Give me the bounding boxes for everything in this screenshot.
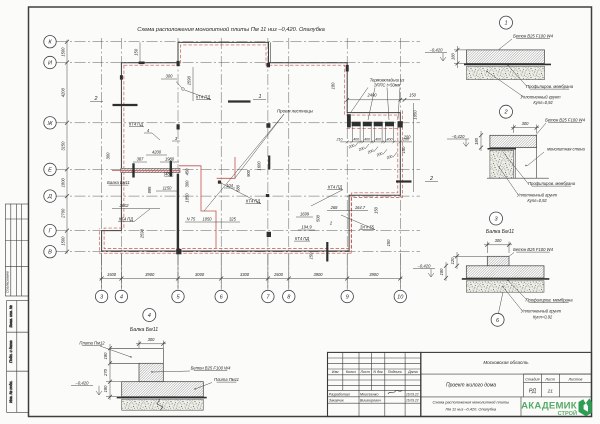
svg-text:3900: 3900 bbox=[145, 272, 155, 277]
detail 1 soil stipple bbox=[467, 66, 545, 79]
wall pier blocks bbox=[177, 61, 180, 66]
svg-text:3900: 3900 bbox=[369, 272, 379, 277]
building slab outline bbox=[102, 42, 401, 251]
svg-text:Дата: Дата bbox=[407, 370, 417, 374]
svg-text:270: 270 bbox=[103, 368, 108, 377]
svg-text:3300: 3300 bbox=[240, 272, 250, 277]
svg-text:164.7: 164.7 bbox=[355, 205, 366, 210]
svg-text:1500: 1500 bbox=[61, 47, 66, 57]
svg-text:Подпись: Подпись bbox=[388, 370, 402, 374]
detail 4 membrane bbox=[117, 397, 207, 399]
svg-text:Проект жилого дома: Проект жилого дома bbox=[446, 382, 496, 388]
svg-text:500: 500 bbox=[316, 214, 321, 222]
svg-text:Согласовано: Согласовано bbox=[6, 271, 10, 293]
title block bbox=[328, 352, 592, 416]
detail 1 slab hatched bbox=[467, 50, 545, 64]
section mark 2 right bbox=[396, 180, 412, 182]
svg-text:Схема расположения монолитной: Схема расположения монолитной плиты Пм 1… bbox=[137, 26, 325, 33]
svg-text:Профилиров. мембрана: Профилиров. мембрана bbox=[525, 298, 573, 303]
svg-text:300: 300 bbox=[495, 238, 503, 243]
svg-text:N док: N док bbox=[373, 370, 383, 374]
detail 4 break mark bbox=[157, 399, 163, 411]
svg-text:Уплотненный грунт: Уплотненный грунт bbox=[517, 193, 558, 198]
svg-text:Взам. инв. №: Взам. инв. № bbox=[9, 305, 13, 327]
logo cube icon bbox=[579, 398, 592, 416]
svg-text:4: 4 bbox=[148, 313, 151, 319]
detail 3 soil stipple bbox=[466, 281, 544, 292]
svg-text:3900: 3900 bbox=[313, 272, 323, 277]
outer red dashed partial bbox=[99, 111, 402, 254]
svg-text:Профилиров. мембрана: Профилиров. мембрана bbox=[526, 84, 574, 89]
svg-text:Купл=0,92: Купл=0,92 bbox=[527, 198, 547, 203]
svg-text:Схема расположения монолитной: Схема расположения монолитной плиты bbox=[432, 400, 509, 405]
svg-text:400: 400 bbox=[387, 137, 393, 141]
slab edge red dashed (formwork) bbox=[104, 45, 398, 249]
terrace edge red dashed bbox=[347, 127, 401, 129]
plan dimension micro-labels bbox=[106, 42, 421, 259]
svg-text:Подп. и дата: Подп. и дата bbox=[9, 340, 13, 363]
left margin stamp boxes bbox=[7, 301, 29, 413]
svg-text:16.09.23: 16.09.23 bbox=[406, 399, 419, 403]
terrace end wall blocks bbox=[347, 114, 351, 127]
svg-text:2400: 2400 bbox=[366, 92, 377, 97]
svg-text:N 75: N 75 bbox=[187, 217, 196, 222]
svg-text:200: 200 bbox=[402, 137, 409, 141]
svg-text:300: 300 bbox=[185, 180, 190, 188]
svg-text:Лист: Лист bbox=[544, 377, 555, 381]
svg-text:268: 268 bbox=[330, 205, 339, 210]
svg-text:КТ4 ПД: КТ4 ПД bbox=[328, 185, 342, 190]
svg-text:2: 2 bbox=[94, 96, 98, 102]
svg-text:1699: 1699 bbox=[300, 212, 310, 217]
svg-text:1600: 1600 bbox=[257, 161, 262, 171]
detail 4 upper outline (Pm12 + upstand) bbox=[110, 348, 163, 363]
svg-text:1590: 1590 bbox=[187, 75, 192, 85]
svg-text:Инв. № подл.: Инв. № подл. bbox=[9, 381, 13, 403]
svg-text:1800: 1800 bbox=[61, 178, 66, 188]
svg-text:16.09.23: 16.09.23 bbox=[406, 392, 419, 396]
detail 2 soil stipple bbox=[490, 150, 514, 178]
grid axis lines vertical bbox=[101, 38, 103, 290]
svg-text:450: 450 bbox=[185, 168, 190, 176]
svg-text:Плита Пм12: Плита Пм12 bbox=[79, 341, 105, 346]
svg-text:210: 210 bbox=[336, 137, 343, 141]
terrace small dim chain bbox=[340, 141, 412, 143]
svg-text:Бетон В25 F100 W4: Бетон В25 F100 W4 bbox=[545, 118, 586, 123]
signature squiggle bbox=[388, 390, 402, 394]
svg-text:1850: 1850 bbox=[185, 193, 190, 203]
svg-text:895: 895 bbox=[147, 186, 152, 194]
monolithic wall axis 5 bbox=[177, 174, 179, 251]
detail 3 upstand hatched bbox=[487, 256, 509, 266]
svg-text:9: 9 bbox=[346, 295, 349, 301]
svg-text:Д: Д bbox=[47, 194, 52, 200]
section mark 1 top bbox=[228, 100, 251, 102]
bay corner double line bbox=[269, 42, 271, 62]
svg-text:150: 150 bbox=[409, 93, 417, 98]
svg-text:Колич: Колич bbox=[346, 370, 356, 374]
svg-text:1500: 1500 bbox=[274, 272, 284, 277]
detail 4 bubble bbox=[143, 309, 156, 322]
section mark 2 left bbox=[113, 104, 138, 106]
svg-text:Уплотненный грунт: Уплотненный грунт bbox=[520, 95, 561, 100]
svg-text:Балка Бм11: Балка Бм11 bbox=[130, 327, 158, 333]
detail 3 dims left bbox=[456, 252, 458, 269]
svg-text:–0,420: –0,420 bbox=[417, 264, 431, 269]
svg-text:180: 180 bbox=[103, 352, 108, 360]
svg-text:400: 400 bbox=[364, 137, 370, 141]
svg-text:2598: 2598 bbox=[140, 228, 145, 239]
svg-text:Заказчик: Заказчик bbox=[329, 399, 344, 403]
detail 4 upstand hatched bbox=[139, 363, 163, 381]
beam end bars bbox=[132, 163, 134, 177]
detail 3 membrane bbox=[462, 278, 550, 280]
svg-text:Вишкиревич: Вишкиревич bbox=[360, 399, 381, 403]
svg-text:1: 1 bbox=[504, 21, 507, 27]
svg-text:120: 120 bbox=[450, 257, 455, 265]
svg-text:Моисеенко: Моисеенко bbox=[360, 392, 378, 396]
svg-text:150: 150 bbox=[374, 206, 379, 214]
svg-text:300: 300 bbox=[166, 74, 174, 79]
grid axis lines horizontal bbox=[57, 41, 421, 43]
svg-text:В: В bbox=[48, 250, 52, 256]
svg-text:150: 150 bbox=[309, 252, 314, 260]
svg-text:1: 1 bbox=[259, 94, 262, 100]
svg-text:Бетон В25 F100 W4: Бетон В25 F100 W4 bbox=[513, 34, 554, 39]
beam Bm11 hatched bbox=[121, 168, 180, 172]
svg-text:180: 180 bbox=[103, 385, 108, 393]
svg-text:–0,420: –0,420 bbox=[451, 134, 465, 139]
svg-text:150: 150 bbox=[401, 146, 406, 154]
svg-text:150: 150 bbox=[134, 48, 139, 56]
svg-text:1980: 1980 bbox=[165, 157, 175, 162]
svg-text:–0,420: –0,420 bbox=[429, 48, 443, 53]
svg-text:1150: 1150 bbox=[163, 186, 173, 191]
axis bubbles numbers bbox=[95, 290, 107, 302]
stair opening red outline bbox=[179, 166, 216, 248]
svg-text:180: 180 bbox=[439, 268, 444, 276]
svg-text:3000: 3000 bbox=[195, 272, 205, 277]
detail 2 wall bbox=[515, 148, 536, 179]
svg-text:Пм 11 низ –0,420. Опалубка: Пм 11 низ –0,420. Опалубка bbox=[445, 406, 496, 411]
svg-text:10: 10 bbox=[397, 295, 404, 301]
svg-text:КТ4 ПД: КТ4 ПД bbox=[119, 217, 133, 222]
detail 4 left dims bbox=[109, 344, 111, 400]
svg-text:Профилиров. мембрана: Профилиров. мембрана bbox=[528, 181, 576, 186]
svg-text:1500: 1500 bbox=[107, 272, 117, 277]
detail 2 slab hatched bbox=[490, 135, 537, 147]
left dimension chain bbox=[66, 40, 68, 254]
svg-text:4: 4 bbox=[120, 295, 123, 301]
svg-text:КТ4 ПД: КТ4 ПД bbox=[129, 122, 143, 127]
svg-text:Балка Бм11: Балка Бм11 bbox=[486, 229, 514, 235]
svg-text:300: 300 bbox=[106, 152, 111, 160]
svg-text:Проем лестницы: Проем лестницы bbox=[277, 109, 314, 114]
svg-text:2700: 2700 bbox=[61, 208, 66, 219]
svg-text:387: 387 bbox=[137, 157, 145, 162]
svg-text:–0,420: –0,420 bbox=[75, 381, 89, 386]
svg-text:Балка Бм11: Балка Бм11 bbox=[107, 180, 130, 185]
detail 3 bubble bbox=[490, 212, 503, 225]
svg-text:1500: 1500 bbox=[61, 236, 66, 246]
svg-text:Лист: Лист bbox=[359, 370, 369, 374]
svg-text:монолитная стена: монолитная стена bbox=[547, 147, 585, 152]
svg-text:150: 150 bbox=[386, 239, 391, 247]
detail 1 bubble bbox=[500, 16, 513, 29]
svg-text:Плита Пм11: Плита Пм11 bbox=[214, 377, 239, 382]
wall axis 7 stub bbox=[268, 156, 270, 170]
svg-text:СТРОЙ: СТРОЙ bbox=[558, 409, 577, 417]
detail 3 slab hatched bbox=[466, 266, 544, 278]
detail 1 membrane bbox=[464, 63, 551, 65]
svg-text:3150: 3150 bbox=[61, 141, 66, 151]
svg-text:400: 400 bbox=[375, 137, 381, 141]
detail 4 soil stipple bbox=[122, 399, 204, 410]
detail 2 bubble bbox=[500, 105, 513, 118]
svg-text:Е: Е bbox=[48, 167, 52, 173]
section mark 1 bottom bbox=[326, 242, 328, 262]
detail 2 height dim bbox=[480, 131, 482, 151]
detail 2 membrane bbox=[488, 148, 517, 150]
svg-text:900: 900 bbox=[246, 169, 251, 177]
svg-text:300: 300 bbox=[148, 337, 156, 342]
svg-text:И: И bbox=[48, 61, 52, 67]
svg-text:2: 2 bbox=[429, 176, 433, 182]
svg-text:1050: 1050 bbox=[202, 217, 212, 222]
svg-text:400: 400 bbox=[353, 137, 359, 141]
svg-text:325: 325 bbox=[229, 217, 237, 222]
svg-text:180: 180 bbox=[331, 82, 336, 90]
svg-text:Бетон В25 F100 W4: Бетон В25 F100 W4 bbox=[513, 247, 554, 252]
svg-text:Московская область: Московская область bbox=[483, 360, 529, 365]
svg-text:4200: 4200 bbox=[152, 150, 162, 155]
left margin approval table bbox=[5, 204, 28, 296]
detail 1 height dim bbox=[457, 46, 459, 68]
svg-text:300: 300 bbox=[522, 121, 530, 126]
thermal insert blocks bbox=[352, 122, 361, 127]
svg-text:РД: РД bbox=[529, 389, 536, 395]
svg-text:Уплотненный грунт: Уплотненный грунт bbox=[521, 309, 562, 314]
detail 2 ground line bbox=[487, 177, 549, 179]
bottom dimension chain bbox=[100, 278, 403, 280]
svg-text:4200: 4200 bbox=[61, 87, 66, 97]
svg-text:Ж: Ж bbox=[46, 121, 53, 127]
svg-text:Бетон В25 F100 W4: Бетон В25 F100 W4 bbox=[191, 365, 232, 370]
svg-text:180: 180 bbox=[474, 137, 479, 145]
svg-text:Стадия: Стадия bbox=[525, 377, 539, 381]
svg-text:Разработал: Разработал bbox=[329, 392, 350, 396]
svg-text:104: 104 bbox=[226, 183, 234, 188]
svg-text:Купл=0,92: Купл=0,92 bbox=[533, 315, 553, 320]
svg-text:Изм: Изм bbox=[332, 370, 339, 374]
svg-text:194.9: 194.9 bbox=[301, 225, 312, 230]
svg-text:Листов: Листов bbox=[567, 377, 582, 381]
svg-text:Купл=0,92: Купл=0,92 bbox=[533, 100, 553, 105]
detail 3 node bubble 6 bbox=[491, 313, 504, 326]
svg-text:180: 180 bbox=[451, 52, 456, 60]
bottom chain extension lines bbox=[101, 253, 103, 290]
svg-text:ЭППС t=50мм: ЭППС t=50мм bbox=[374, 83, 401, 88]
axis bubbles letters bbox=[44, 36, 56, 48]
svg-text:КТ4 ПД: КТ4 ПД bbox=[295, 236, 309, 241]
svg-text:21: 21 bbox=[547, 389, 554, 395]
svg-text:2602: 2602 bbox=[118, 203, 129, 208]
detail 4 bottom slab hatched bbox=[122, 382, 204, 397]
